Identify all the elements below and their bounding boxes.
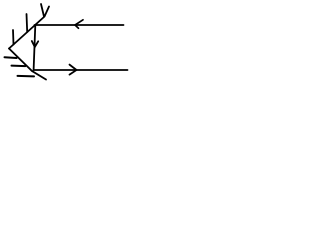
- hatch M2-1: [5, 56, 17, 59]
- hatch M2-3: [18, 75, 35, 78]
- hatch M1-2: [26, 14, 29, 32]
- arrowhead vertical ray: [32, 41, 38, 47]
- reflected ray (vertical, travelling down): [34, 25, 36, 70]
- mirror M1 (upper-left, "/" surface): [9, 7, 49, 49]
- arrowhead incident ray: [75, 20, 83, 28]
- hatch M2-2: [12, 65, 26, 68]
- hatch M1-3: [41, 4, 44, 17]
- mirror M2 (lower-left, "\" surface): [9, 49, 46, 80]
- arrowhead exit ray: [70, 65, 77, 75]
- hatch M1-1: [12, 30, 15, 45]
- incident ray (top, travelling left): [35, 24, 124, 26]
- exit ray (bottom, travelling right): [34, 69, 128, 71]
